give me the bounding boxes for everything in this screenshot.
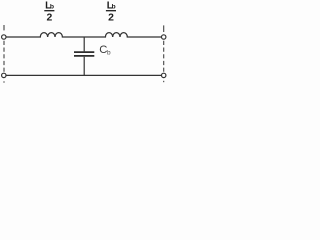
svg-text:C: C [99,44,107,56]
svg-text:b: b [50,4,54,11]
svg-text:b: b [107,50,111,57]
svg-text:2: 2 [108,13,114,24]
svg-text:b: b [112,4,116,11]
svg-text:2: 2 [47,13,53,24]
